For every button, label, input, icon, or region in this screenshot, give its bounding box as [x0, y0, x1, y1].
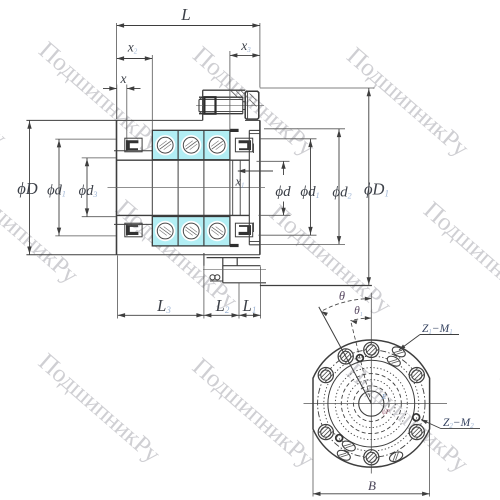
flange horizontal center line: [304, 403, 448, 405]
bolt center line: [196, 105, 264, 107]
svg-text:ϕd: ϕd: [275, 184, 291, 200]
small threaded holes: [357, 355, 364, 362]
dimension x: [116, 85, 118, 120]
dimension x1: [238, 170, 273, 172]
svg-text:Z2−M2: Z2−M2: [443, 417, 474, 430]
radial dashed line 104deg: [351, 320, 372, 403]
flange mounting bolts: [364, 342, 379, 357]
theta dimension arc: [321, 299, 371, 312]
bolt thread: [199, 96, 243, 98]
svg-text:θ: θ: [339, 289, 345, 303]
cap groove top: [253, 144, 255, 154]
projection line to flange view: [260, 285, 372, 287]
svg-text:E: E: [381, 393, 387, 401]
svg-text:B: B: [368, 478, 376, 493]
seal bottom-left: [125, 223, 142, 237]
dimension L: [116, 23, 118, 119]
housing left face: [116, 120, 118, 254]
dimension L3 L2 L1: [117, 256, 119, 319]
dimension phid1 left: [55, 138, 116, 140]
flange outline: [313, 340, 430, 467]
bolt circle: [318, 350, 425, 457]
svg-text:L: L: [180, 5, 190, 24]
dimension phid1 right: [260, 138, 317, 140]
flange concentric circles: [359, 391, 384, 416]
dimension phiD: [29, 120, 31, 254]
boss left edge: [202, 90, 204, 120]
left cover plate: [126, 139, 128, 150]
dimension phid2: [264, 128, 345, 130]
cap groove bottom: [253, 223, 255, 233]
bore top line: [117, 159, 250, 161]
sectioned tapped holes: [386, 354, 402, 368]
bore bottom line: [117, 214, 250, 216]
seal top-left: [125, 138, 142, 152]
tapped hole circles: [210, 275, 215, 280]
radial line 118.5deg: [319, 307, 372, 404]
bearing row cyan blocks: [152, 217, 230, 246]
housing top edge + phiD ext: [26, 119, 202, 121]
seal bottom-right: [235, 223, 252, 237]
retaining bar bottom right: [230, 244, 239, 247]
housing right face: [259, 120, 261, 254]
theta1 dimension arc: [351, 318, 372, 321]
dimension phid: [257, 160, 290, 162]
spacer line: [232, 160, 234, 215]
sectioned tapped hole 295deg: [388, 450, 404, 464]
dimension phiD1: [260, 87, 375, 89]
dimension phid3: [82, 157, 116, 159]
dimension x2: [151, 55, 153, 130]
spacer line 2: [239, 160, 241, 215]
housing bottom edge + phiD ext: [26, 254, 260, 256]
housing top edge right of boss: [245, 119, 260, 121]
dimension x3: [229, 51, 231, 130]
retaining bar top right: [230, 129, 239, 132]
bearing boundary verticals through shaft: [151, 160, 153, 217]
bolt neck: [242, 97, 244, 114]
dimension B: [312, 431, 314, 497]
svg-text:ϕD: ϕD: [17, 179, 38, 198]
seal top-right: [235, 138, 252, 152]
section center line: [108, 187, 266, 189]
boss section hatch: [231, 91, 237, 97]
boss top edge: [203, 89, 246, 91]
thread engagement block: [204, 97, 215, 114]
bottom boss axis: [203, 268, 266, 270]
right end cap: [248, 130, 250, 244]
flange vertical center line: [370, 293, 372, 474]
bottom boss: [203, 253, 205, 266]
bearing row cyan blocks: [152, 130, 230, 159]
bolt head: [245, 91, 259, 119]
svg-text:ϕP: ϕP: [382, 408, 391, 416]
svg-text:x: x: [120, 71, 127, 86]
